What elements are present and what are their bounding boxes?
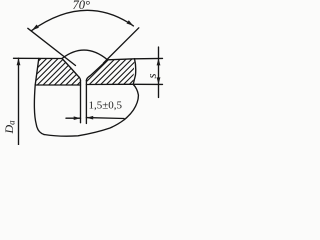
gap dimension arrowhead right (points left) [86, 116, 93, 120]
s dimension arrowhead top (points up) [157, 58, 161, 65]
weld contour dome over groove [62, 50, 108, 60]
bottom break line [44, 120, 125, 137]
pipe outer surface left + Da extension line [14, 57, 63, 59]
svg-text:s: s [144, 73, 159, 78]
Da dimension arrowhead (points up) [17, 58, 21, 65]
arc arrowhead left [32, 25, 39, 31]
left angle dimension line [28, 28, 76, 65]
pipe inner surface left [35, 84, 80, 86]
right pipe end line in bore (gap right edge) [85, 81, 87, 124]
left pipe end line in bore (gap left edge) [80, 81, 82, 123]
Da dimension line [18, 58, 20, 145]
left groove bevel wall [62, 59, 81, 81]
gap dimension arrowhead left (points right) [74, 116, 81, 120]
svg-text:70°: 70° [73, 0, 91, 12]
pipe inner surface right + s extension line [86, 83, 162, 85]
angle dimension arc [32, 10, 134, 30]
left pipe end edge / break line [34, 58, 44, 134]
hatching right pipe wall [49, 55, 165, 91]
svg-text:1,5±0,5: 1,5±0,5 [89, 100, 123, 112]
right break edge [125, 59, 139, 120]
right groove bevel wall [86, 60, 107, 81]
gap dimension line left segment [66, 117, 81, 119]
pipe outer surface right + s extension line [108, 58, 163, 59]
gap dimension line right segment [86, 117, 124, 120]
hatching left pipe wall [3, 55, 113, 91]
s dimension arrowhead bottom (points down) [157, 77, 161, 84]
s dimension line [158, 47, 160, 98]
arc arrowhead right [127, 20, 134, 26]
right angle dimension line [104, 28, 139, 63]
